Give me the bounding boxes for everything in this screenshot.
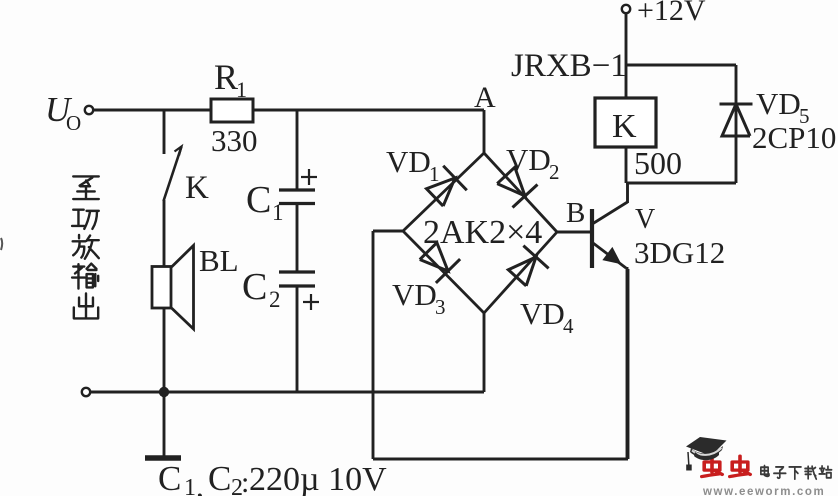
svg-text:K: K [185,170,209,206]
svg-text:330: 330 [211,123,258,158]
svg-text:500: 500 [634,145,682,181]
svg-text:4: 4 [563,314,574,338]
svg-text:BL: BL [199,243,239,278]
svg-text:VD: VD [520,296,565,331]
svg-text:K: K [612,108,637,145]
svg-text:VD: VD [506,142,551,177]
svg-text:R: R [214,57,238,97]
svg-text:1: 1 [272,200,284,225]
svg-text:,: , [196,468,204,496]
svg-text:C: C [158,459,181,496]
svg-text:A: A [474,81,496,114]
svg-text:B: B [566,197,585,229]
svg-text:C: C [246,179,271,221]
svg-text:VD: VD [756,86,801,121]
svg-text:www.eeworm.com: www.eeworm.com [702,486,825,496]
svg-text:+12V: +12V [637,0,706,27]
svg-text:C: C [242,266,267,308]
svg-text:2: 2 [269,287,281,312]
svg-text:220µ 10V: 220µ 10V [249,461,387,496]
svg-text:VD: VD [386,144,431,179]
svg-text:V: V [635,204,655,235]
svg-text:1: 1 [236,77,247,102]
svg-text:1: 1 [184,475,196,496]
svg-text:2CP10: 2CP10 [752,120,836,155]
svg-text:O: O [66,111,81,135]
svg-text:3DG12: 3DG12 [634,235,725,270]
svg-text:3: 3 [435,295,446,319]
svg-text:VD: VD [392,277,437,312]
svg-text:JRXB−1: JRXB−1 [511,48,627,84]
svg-text:C: C [208,459,231,496]
svg-text:1: 1 [429,162,440,186]
svg-text:2: 2 [549,160,560,184]
svg-text:2AK2×4: 2AK2×4 [423,214,542,251]
